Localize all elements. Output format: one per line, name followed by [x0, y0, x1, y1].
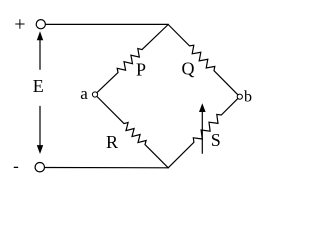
arrowhead up (S wiper) [199, 103, 206, 112]
svg-text:Q: Q [182, 59, 195, 79]
battery arrow top (shaft) [39, 40, 41, 70]
terminal + circle [36, 20, 45, 29]
battery arrow bottom (shaft) [39, 106, 41, 147]
svg-text:S: S [211, 130, 221, 150]
arrowhead down (E, toward - terminal) [37, 145, 43, 154]
svg-text:+: + [14, 13, 25, 35]
wire bottom horizontal [45, 167, 169, 169]
node b circle [237, 94, 242, 99]
svg-text:E: E [33, 76, 44, 96]
svg-text:-: - [13, 157, 19, 176]
terminal - circle [35, 163, 44, 172]
arrowhead up (E, toward + terminal) [37, 31, 43, 40]
svg-text:P: P [136, 60, 146, 80]
node a circle [92, 92, 97, 97]
arrow through S (wiper) [201, 111, 203, 154]
resistor Q [168, 25, 238, 95]
wire top horizontal [45, 23, 168, 25]
svg-text:a: a [80, 84, 88, 103]
resistor S [168, 99, 238, 168]
svg-text:b: b [244, 88, 252, 105]
svg-text:R: R [106, 132, 118, 152]
resistor R [97, 97, 168, 168]
resistor P [97, 25, 168, 93]
